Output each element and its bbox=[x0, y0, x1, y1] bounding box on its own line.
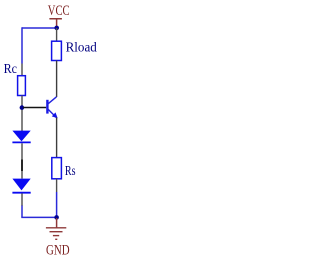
resistor Rload bbox=[52, 28, 62, 97]
svg-text:GND: GND bbox=[46, 243, 70, 259]
transistor Q1 bbox=[23, 97, 58, 158]
resistor Rs bbox=[52, 158, 62, 192]
resistor Rc bbox=[18, 64, 26, 132]
node bottom junction bbox=[54, 215, 59, 220]
wire top horizontal bbox=[22, 27, 57, 29]
wire bottom horizontal bbox=[21, 216, 56, 218]
node base junction bbox=[20, 105, 25, 110]
svg-text:Rc: Rc bbox=[4, 62, 17, 77]
node top junction bbox=[54, 26, 59, 31]
svg-text:VCC: VCC bbox=[48, 3, 70, 19]
svg-text:Rload: Rload bbox=[66, 41, 97, 56]
svg-text:Rs: Rs bbox=[65, 164, 76, 179]
wire right vertical lower bbox=[56, 192, 58, 217]
diode D1 bbox=[12, 131, 30, 179]
ground GND bbox=[46, 218, 70, 259]
wire left vertical upper bbox=[21, 27, 23, 63]
diode D2 bbox=[12, 179, 30, 206]
wire left vertical lower bbox=[21, 206, 23, 218]
power VCC bbox=[48, 3, 70, 28]
